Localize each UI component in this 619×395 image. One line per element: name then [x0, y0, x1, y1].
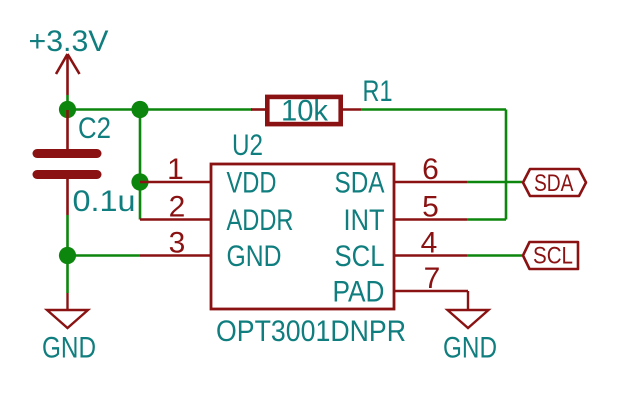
pin 5 INT [344, 191, 468, 238]
ground symbol left [47, 293, 88, 328]
junction GND net [59, 247, 76, 264]
wire SDA [467, 181, 522, 184]
pin 1 VDD [140, 153, 277, 200]
svg-text:1: 1 [167, 153, 184, 186]
pin 2 ADDR [140, 191, 294, 238]
svg-text:PAD: PAD [333, 276, 385, 309]
svg-text:R1: R1 [363, 75, 393, 108]
global label SCL [523, 242, 578, 269]
svg-text:4: 4 [421, 227, 438, 260]
svg-text:6: 6 [422, 153, 439, 186]
wire C2 to GND junction [66, 215, 69, 256]
junction rail VDD branch [131, 101, 148, 118]
wire power to rail [66, 95, 69, 110]
pin 6 SDA [335, 153, 468, 200]
svg-text:VDD: VDD [227, 167, 277, 200]
svg-text:SDA: SDA [335, 167, 385, 200]
svg-text:GND: GND [42, 332, 96, 365]
svg-text:0.1u: 0.1u [73, 185, 136, 218]
IC U2 body [211, 164, 394, 309]
svg-text:5: 5 [422, 191, 439, 224]
wire ADDR tie to VDD [139, 182, 142, 220]
wire GND junction down [66, 256, 69, 294]
capacitor C2 [37, 110, 97, 215]
power symbol +3.3V [56, 54, 80, 95]
junction at pin 1 VDD [131, 173, 148, 190]
svg-text:+3.3V: +3.3V [29, 25, 109, 58]
svg-text:SCL: SCL [335, 240, 385, 273]
wire VDD branch vertical [139, 110, 142, 183]
svg-text:ADDR: ADDR [227, 204, 294, 237]
wire SCL [467, 254, 522, 257]
pin 7 PAD [333, 262, 469, 309]
svg-text:SCL: SCL [533, 242, 573, 269]
svg-text:C2: C2 [78, 112, 111, 145]
resistor R1 [251, 97, 361, 124]
svg-text:GND: GND [443, 332, 497, 365]
wire R1 to INT net [361, 110, 506, 220]
ground symbol right [448, 291, 489, 328]
svg-text:10k: 10k [281, 95, 329, 128]
junction rail left [59, 101, 76, 118]
svg-text:OPT3001DNPR: OPT3001DNPR [216, 315, 406, 348]
svg-text:SDA: SDA [534, 170, 574, 197]
svg-text:2: 2 [169, 191, 186, 224]
wire 3.3V rail horizontal [68, 108, 253, 111]
pin 4 SCL [335, 227, 468, 274]
svg-text:INT: INT [344, 204, 385, 237]
wire GND junction to pin 3 [68, 254, 141, 257]
svg-text:7: 7 [424, 262, 441, 295]
svg-text:GND: GND [227, 240, 282, 273]
svg-text:3: 3 [169, 227, 186, 260]
global label SDA [523, 169, 586, 197]
pin 3 GND [140, 227, 282, 274]
svg-text:U2: U2 [232, 129, 263, 162]
